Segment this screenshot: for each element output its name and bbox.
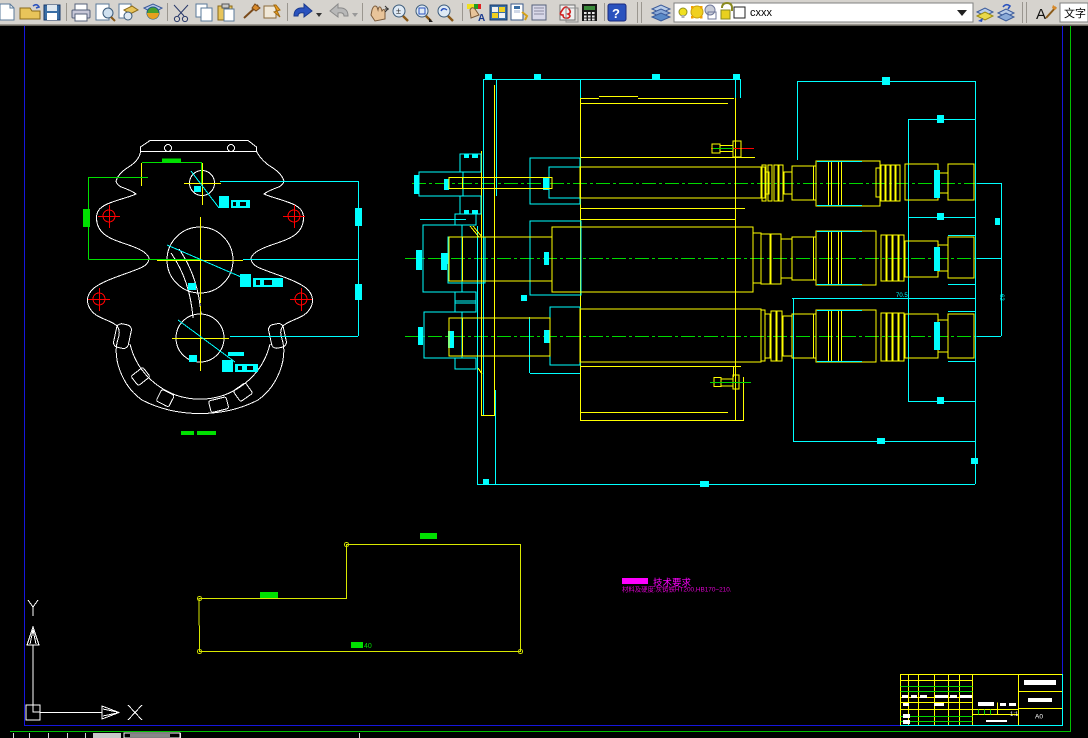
icon: zoom window	[416, 5, 433, 22]
separators	[67, 2, 1027, 23]
gear case	[580, 97, 755, 422]
icon: preview	[96, 4, 115, 21]
yellow centerlines	[142, 163, 244, 371]
icon: publish	[119, 4, 138, 20]
title block	[900, 674, 1063, 726]
icon: properties	[467, 4, 485, 24]
icon: calculator	[582, 4, 597, 21]
left view: housing outline	[83, 141, 362, 436]
icon: tool palettes	[511, 4, 527, 20]
icon: sheetset	[532, 5, 546, 20]
green grip rects	[162, 159, 181, 163]
svg-text:A: A	[1036, 6, 1046, 23]
toolbar	[0, 0, 1088, 27]
cyan dimension ticks	[483, 74, 1000, 487]
bottom status strip	[9, 733, 1088, 738]
bolt 1 with red line	[711, 148, 754, 150]
icon: copy	[196, 4, 212, 21]
icon: block editor lightning	[264, 5, 280, 18]
inner rib curves	[171, 253, 193, 318]
center circle big	[167, 227, 233, 293]
flange column	[478, 85, 495, 416]
shaft 2 assembly	[416, 214, 974, 303]
icon: redo	[330, 4, 358, 17]
icon: paste	[218, 4, 234, 21]
svg-text:±: ±	[396, 6, 401, 16]
icon: markup	[560, 5, 578, 22]
svg-text:40: 40	[364, 643, 372, 650]
red bolt hole circles	[88, 205, 312, 311]
icon: zoom realtime	[393, 5, 408, 21]
housing silhouette	[87, 152, 312, 414]
left docked toolbar strip	[0, 26, 10, 738]
svg-text:A0: A0	[1035, 714, 1043, 721]
housing top cap	[141, 141, 257, 152]
side feet	[113, 323, 133, 350]
svg-text:文字: 文字	[1064, 6, 1086, 20]
svg-text:1:1: 1:1	[1010, 712, 1019, 718]
icon: designcenter	[490, 5, 507, 20]
cyan dimension frame right of left view	[220, 181, 359, 337]
green dimension highlight labels on polygon	[260, 533, 437, 648]
cyan leader 3 (lower circle)	[178, 320, 258, 372]
green stepped polygon (bottom view outline)	[198, 543, 523, 654]
icon: print	[72, 4, 90, 21]
icon: make layer current	[977, 8, 993, 22]
icon: save	[44, 5, 60, 20]
green selection lines	[89, 162, 202, 260]
shaft centerlines (green dash-dot)	[405, 184, 975, 337]
icon: open	[20, 5, 40, 19]
technical notes (magenta)	[622, 577, 732, 594]
icon: cut	[174, 5, 188, 22]
bell rim pads	[131, 367, 253, 413]
UCS icon	[26, 600, 142, 720]
svg-text:材料及硬度:灰铸铁HT200,HB170~210.: 材料及硬度:灰铸铁HT200,HB170~210.	[622, 585, 732, 594]
icon: new	[0, 4, 14, 20]
icon: zoom previous	[438, 5, 453, 21]
cyan leader 2 (center circle)	[167, 245, 283, 290]
icon: matchprop brush	[244, 4, 260, 18]
bore circle top	[190, 171, 215, 196]
shaft 1 assembly	[414, 141, 974, 214]
cyan top dimension line	[477, 79, 1002, 485]
inner bell arc	[130, 344, 270, 399]
icon: text style	[1036, 5, 1057, 23]
text combo	[1060, 3, 1088, 22]
green bottom highlighted dim	[181, 431, 216, 435]
icon: globe	[144, 4, 162, 19]
layer combo	[674, 3, 973, 22]
icon: undo	[294, 4, 322, 17]
icon: pan hand	[371, 6, 389, 21]
icon: layer previous	[998, 5, 1014, 21]
svg-text:A: A	[478, 13, 485, 24]
icon: help	[608, 4, 626, 21]
icon: layers	[652, 5, 670, 21]
svg-text:62: 62	[998, 294, 1004, 301]
lower circle	[176, 314, 224, 362]
bolt 2	[714, 375, 739, 389]
svg-text:?: ?	[612, 6, 620, 21]
shaft 3 assembly	[418, 301, 974, 389]
cyan leader 1 (top bore)	[191, 171, 250, 208]
svg-text:70.5: 70.5	[896, 293, 908, 299]
svg-text:cxxx: cxxx	[750, 7, 773, 19]
